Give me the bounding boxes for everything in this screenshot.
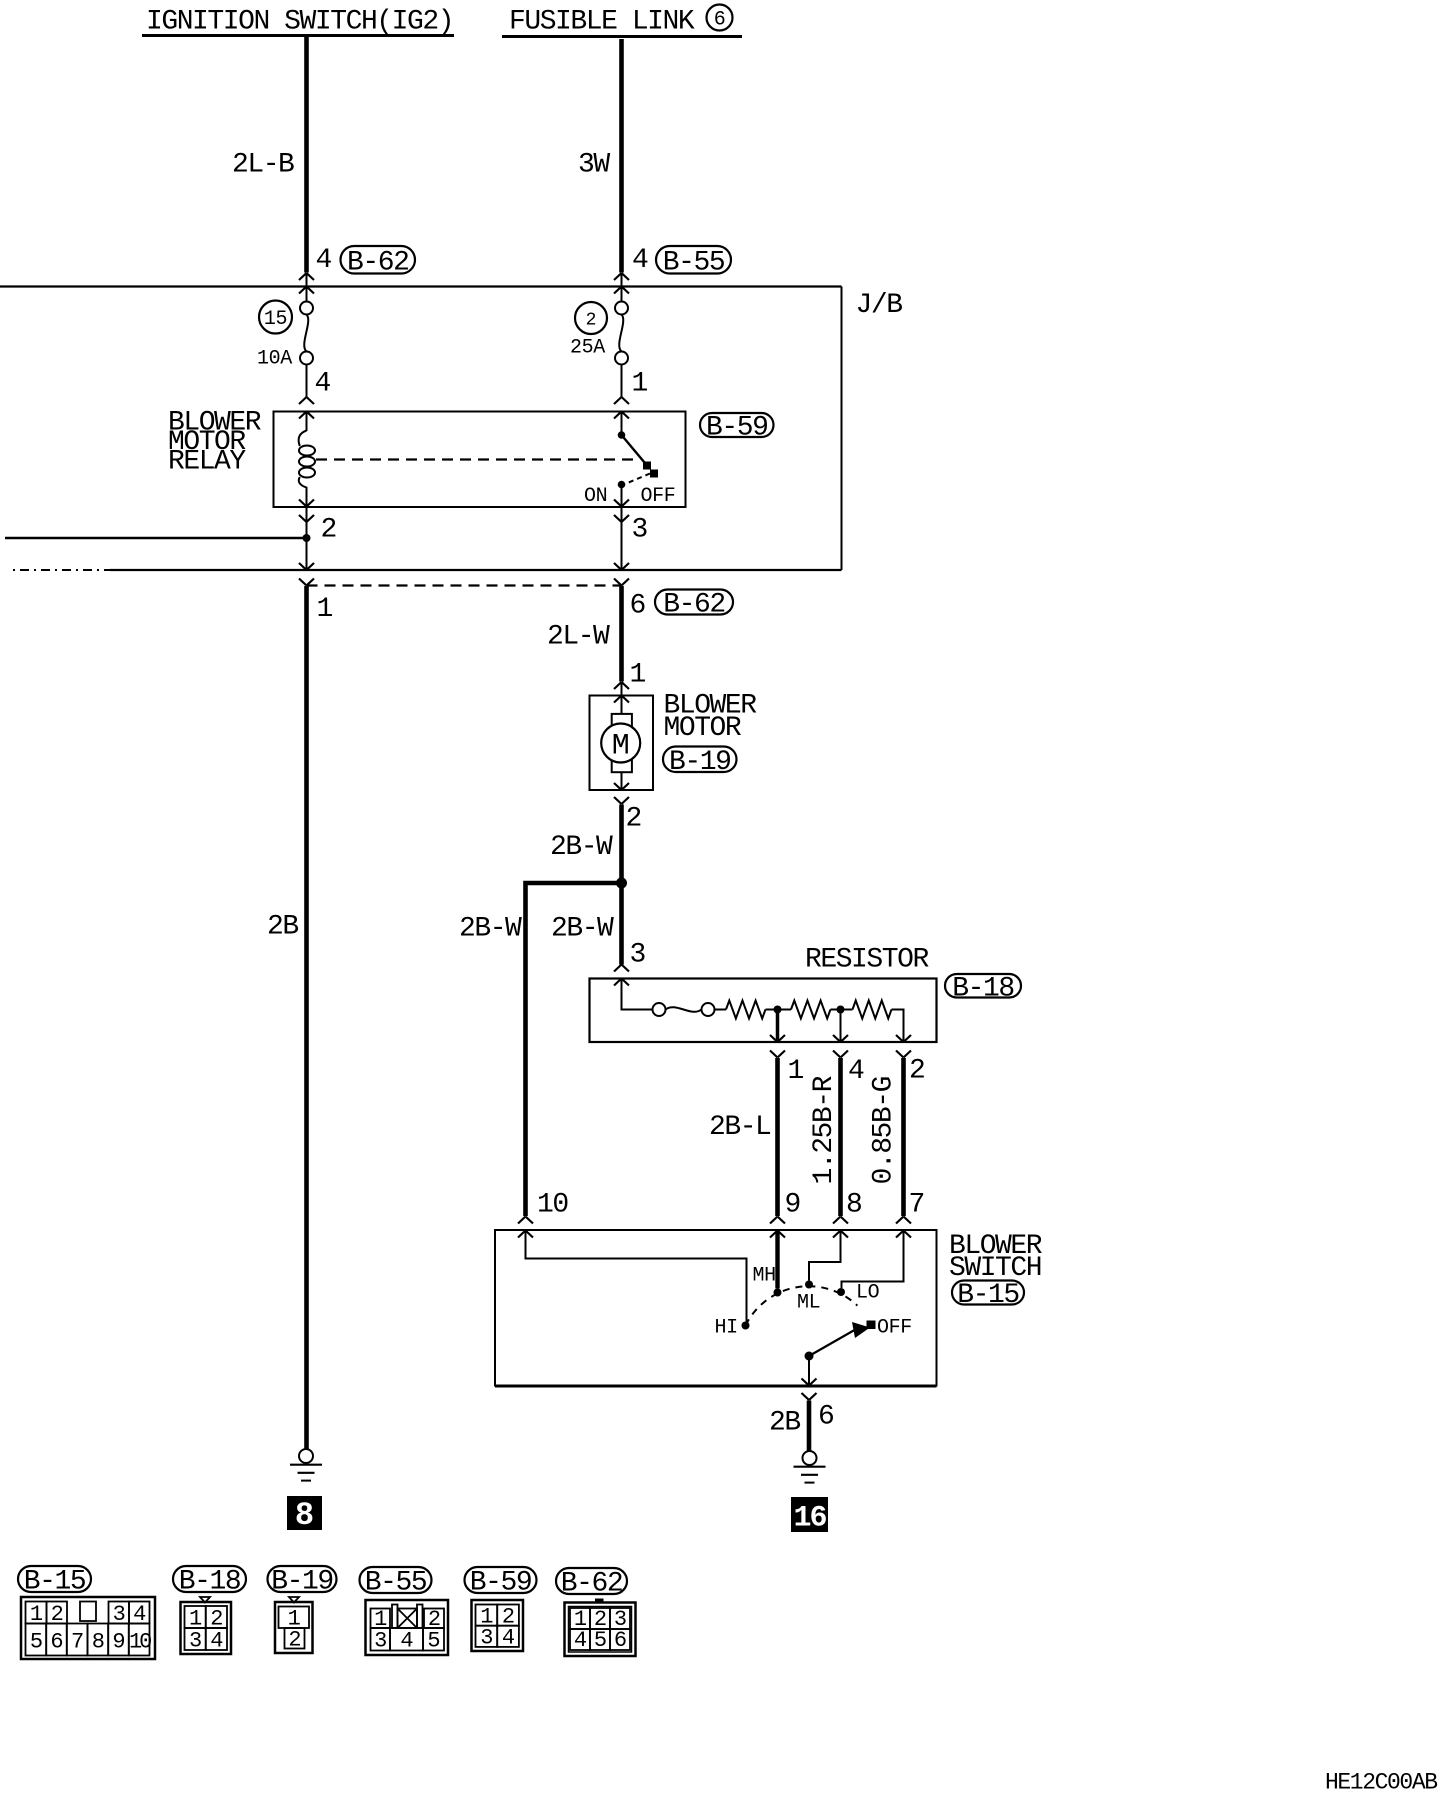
connector arrows at switch pin 8 bbox=[833, 1217, 848, 1224]
fuse 15 element top terminal bbox=[300, 302, 313, 315]
svg-text:3: 3 bbox=[480, 1626, 492, 1651]
connector B-59 pinout drawing bbox=[472, 1600, 524, 1651]
svg-text:ON: ON bbox=[584, 485, 607, 508]
wire element3 to pin 2 drop bbox=[892, 1010, 904, 1043]
wire relay ON contact to pin 3 bbox=[621, 488, 623, 570]
connector label B-62 (lower) bbox=[655, 590, 733, 615]
connector chart label B-59 bbox=[465, 1567, 537, 1593]
resistor element 1 bbox=[726, 1001, 765, 1019]
connector arrows at switch pin 7 bbox=[896, 1217, 911, 1224]
svg-text:8: 8 bbox=[295, 1497, 314, 1534]
connector B-18 pinout drawing bbox=[200, 1597, 210, 1603]
svg-text:9: 9 bbox=[112, 1630, 124, 1655]
wire stub out of motor bbox=[621, 772, 623, 790]
svg-text:1: 1 bbox=[630, 660, 646, 691]
connector label B-62 bbox=[341, 246, 416, 274]
wire into J/B (left) bbox=[306, 273, 308, 302]
svg-text:6: 6 bbox=[818, 1402, 833, 1433]
svg-text:4: 4 bbox=[502, 1626, 515, 1651]
connector B-55 pinout drawing bbox=[366, 1600, 449, 1655]
relay fixed contact (from pin 1) bbox=[621, 412, 623, 433]
svg-text:M: M bbox=[612, 729, 630, 763]
connector arrows at relay pin 1 bbox=[614, 397, 629, 404]
svg-text:HI: HI bbox=[715, 1317, 738, 1340]
wire stub into motor bbox=[621, 682, 623, 714]
svg-text:2L-W: 2L-W bbox=[547, 622, 610, 653]
svg-text:5: 5 bbox=[594, 1628, 606, 1653]
connector arrows at blower motor pin 2 bbox=[614, 783, 629, 790]
resistor internal drop to pin 4 bbox=[840, 1010, 842, 1043]
switch rotor dashed travel arc bbox=[746, 1286, 858, 1325]
connector B-15 pinout drawing bbox=[21, 1597, 155, 1659]
svg-text:B-62: B-62 bbox=[663, 590, 724, 621]
svg-text:B-19: B-19 bbox=[271, 1567, 332, 1598]
svg-text:B-62: B-62 bbox=[561, 1569, 622, 1600]
svg-text:1.25B-R: 1.25B-R bbox=[809, 1075, 840, 1184]
connector arrows at J/B exit (right wire) bbox=[614, 563, 629, 570]
blower switch box bbox=[495, 1230, 937, 1386]
svg-text:B-15: B-15 bbox=[957, 1280, 1019, 1311]
connector label B-55 bbox=[656, 246, 731, 274]
connector chart label B-62 bbox=[556, 1568, 627, 1594]
body ground symbol (right) bbox=[803, 1451, 817, 1465]
connector arrows at switch pin 9 bbox=[770, 1217, 785, 1224]
wire fuse15 to relay pin 4 bbox=[306, 365, 308, 398]
svg-text:4: 4 bbox=[210, 1629, 223, 1654]
fuse 25A element wire bbox=[619, 315, 623, 352]
body ground symbol (left) bbox=[299, 1449, 313, 1463]
svg-text:6: 6 bbox=[630, 591, 645, 622]
fuse 15 element wire bbox=[304, 315, 308, 352]
relay switch arm (off position) bbox=[622, 435, 648, 466]
thermal fuse wire bbox=[666, 1007, 702, 1012]
svg-text:5: 5 bbox=[427, 1629, 439, 1654]
switch wiper arrow head at OFF bbox=[852, 1322, 870, 1338]
svg-text:MH: MH bbox=[753, 1265, 776, 1288]
svg-text:2: 2 bbox=[321, 515, 336, 546]
svg-text:LO: LO bbox=[856, 1282, 879, 1305]
svg-text:2B-W: 2B-W bbox=[551, 914, 614, 945]
resistor element 3 bbox=[853, 1001, 892, 1019]
blower motor box bbox=[590, 696, 654, 791]
wire 0.85B-G (thick) bbox=[901, 1058, 906, 1216]
resistor element 2 bbox=[791, 1001, 830, 1019]
resistor tap node to pin 4 bbox=[837, 1006, 845, 1014]
LO contact dot bbox=[837, 1288, 845, 1296]
junction block J/B bottom edge (solid) bbox=[110, 569, 842, 571]
svg-text:4: 4 bbox=[400, 1629, 413, 1654]
svg-text:3: 3 bbox=[630, 940, 646, 971]
connector chart label B-15 bbox=[18, 1566, 91, 1592]
resistor tap node to pin 1 bbox=[774, 1006, 782, 1014]
svg-text:4: 4 bbox=[632, 245, 648, 276]
svg-text:FUSIBLE LINK: FUSIBLE LINK bbox=[509, 7, 695, 38]
svg-text:10A: 10A bbox=[257, 348, 292, 371]
svg-text:7: 7 bbox=[71, 1630, 83, 1655]
switch internal wire pin8 to ML contact bbox=[809, 1231, 841, 1281]
svg-text:2: 2 bbox=[909, 1056, 924, 1087]
connector label B-15 bbox=[952, 1281, 1024, 1305]
motor symbol circle M bbox=[601, 724, 640, 763]
svg-text:10: 10 bbox=[129, 1630, 151, 1655]
connector label B-59 bbox=[700, 413, 774, 437]
svg-text:RELAY: RELAY bbox=[168, 447, 246, 478]
connector arrows at resistor pin 2 bbox=[896, 1035, 911, 1042]
thermal fuse terminal right bbox=[702, 1003, 715, 1016]
svg-text:4: 4 bbox=[315, 369, 331, 400]
switch internal wire pin10 to HI contact bbox=[526, 1231, 747, 1322]
connector chart label B-18 bbox=[173, 1566, 246, 1592]
fuse 25A element top terminal bbox=[615, 302, 628, 315]
switch pivot dot bbox=[805, 1352, 814, 1361]
svg-text:OFF: OFF bbox=[877, 1317, 912, 1340]
svg-text:4: 4 bbox=[848, 1056, 864, 1087]
thermal fuse terminal left bbox=[653, 1003, 666, 1016]
connector arrows at blower motor pin 1 bbox=[614, 682, 629, 689]
svg-text:B-19: B-19 bbox=[669, 747, 730, 778]
connector arrows at J/B entry (left wire) bbox=[299, 273, 314, 280]
connector arrows at resistor pin 3 bbox=[614, 965, 629, 972]
wire 2L-W thick segment bbox=[619, 586, 624, 682]
wire 2L-B from ignition switch (thick) bbox=[304, 37, 309, 273]
connector label B-19 bbox=[663, 747, 737, 773]
wire 2B to body ground (thick, left) bbox=[304, 586, 309, 1449]
connector arrows at relay pin 3 bbox=[614, 500, 629, 507]
MH contact dot bbox=[774, 1289, 782, 1297]
svg-text:B-59: B-59 bbox=[706, 413, 767, 444]
wire to resistor element 1 bbox=[715, 1009, 727, 1011]
connector arrows at J/B exit (left wire) bbox=[299, 563, 314, 570]
junction block J/B bottom edge (dashed continuation) bbox=[13, 569, 110, 571]
wire 2B-W below motor (thick) bbox=[619, 805, 624, 884]
fusible link underline bbox=[502, 35, 742, 38]
junction block J/B top edge bbox=[0, 285, 842, 287]
wire into J/B (right) bbox=[621, 273, 623, 302]
svg-text:4: 4 bbox=[133, 1602, 146, 1627]
svg-text:2: 2 bbox=[626, 804, 641, 835]
connector chart label B-19 bbox=[268, 1566, 337, 1592]
dashed connector line between B-62 pins 1 and 6 bbox=[307, 584, 622, 586]
wire 2B-W to resistor (thick) bbox=[619, 883, 624, 965]
wire element1 to element2 bbox=[766, 1009, 792, 1011]
ground reference box 8 bbox=[287, 1496, 322, 1530]
blower switch box bottom emphasis bbox=[495, 1385, 937, 1388]
connector arrows at resistor pin 1 bbox=[770, 1035, 785, 1042]
connector arrows at switch pin 10 bbox=[518, 1217, 533, 1224]
connector arrows at relay pin 2 bbox=[299, 500, 314, 507]
svg-text:1: 1 bbox=[30, 1602, 43, 1627]
wire element2 to element3 bbox=[831, 1009, 853, 1011]
wire from left edge to relay pin 2 bbox=[5, 537, 307, 540]
svg-text:HE12C00AB: HE12C00AB bbox=[1325, 1770, 1437, 1794]
svg-text:2B-W: 2B-W bbox=[459, 914, 522, 945]
svg-text:5: 5 bbox=[30, 1630, 42, 1655]
svg-text:2L-B: 2L-B bbox=[232, 150, 294, 181]
svg-text:MOTOR: MOTOR bbox=[664, 713, 742, 744]
svg-text:8: 8 bbox=[846, 1190, 861, 1221]
relay coil bbox=[299, 431, 307, 447]
connector chart label B-55 bbox=[360, 1567, 432, 1593]
ignition switch underline bbox=[142, 34, 454, 37]
svg-text:4: 4 bbox=[316, 245, 332, 276]
svg-text:3: 3 bbox=[632, 515, 648, 546]
svg-text:2: 2 bbox=[288, 1628, 300, 1653]
ML contact dot bbox=[805, 1281, 813, 1289]
svg-text:16: 16 bbox=[793, 1502, 826, 1536]
svg-text:2: 2 bbox=[586, 311, 597, 331]
fuse 15 element bottom terminal bbox=[300, 352, 313, 365]
svg-text:6: 6 bbox=[614, 1628, 626, 1653]
HI contact dot bbox=[742, 1322, 750, 1330]
svg-text:B-62: B-62 bbox=[347, 247, 408, 278]
svg-text:B-15: B-15 bbox=[24, 1567, 86, 1598]
svg-text:3: 3 bbox=[113, 1602, 125, 1627]
svg-text:10: 10 bbox=[537, 1190, 568, 1221]
switch internal wire pin9 to MH contact (thick) bbox=[775, 1231, 779, 1289]
svg-text:B-18: B-18 bbox=[179, 1567, 240, 1598]
svg-text:B-18: B-18 bbox=[952, 974, 1013, 1005]
connector B-62 pinout drawing bbox=[595, 1599, 604, 1603]
fuse 2 number circle bbox=[575, 302, 607, 334]
connector arrows at J/B entry (right wire) bbox=[614, 273, 629, 280]
wire 1.25B-R (thick) bbox=[838, 1058, 843, 1216]
relay coil wire lower stub bbox=[306, 487, 308, 570]
wire into resistor network bbox=[622, 979, 653, 1010]
blower motor relay box bbox=[274, 412, 686, 508]
junction dot at relay pin 2 wire bbox=[303, 534, 311, 542]
fusible link circled 6 bbox=[707, 5, 733, 31]
svg-text:2: 2 bbox=[51, 1602, 63, 1627]
svg-text:IGNITION SWITCH(IG2): IGNITION SWITCH(IG2) bbox=[146, 7, 453, 38]
svg-text:0.85B-G: 0.85B-G bbox=[869, 1076, 900, 1184]
connector arrows at relay pin 4 bbox=[299, 397, 314, 404]
svg-text:RESISTOR: RESISTOR bbox=[805, 945, 929, 976]
connector arrows at switch pin 6 bbox=[802, 1379, 817, 1386]
switch internal wire pin7 to LO contact bbox=[842, 1231, 904, 1289]
junction block J/B right edge bbox=[841, 287, 843, 571]
svg-text:3W: 3W bbox=[578, 150, 610, 181]
svg-text:7: 7 bbox=[909, 1190, 924, 1221]
junction dot 2B-W splice bbox=[616, 878, 627, 889]
svg-text:3: 3 bbox=[189, 1629, 201, 1654]
relay actuation dashed link bbox=[316, 458, 637, 460]
resistor internal drop to pin 1 bbox=[776, 1010, 780, 1043]
switch output wire to pin 6 bbox=[808, 1356, 810, 1386]
svg-text:15: 15 bbox=[264, 308, 287, 331]
wire 2B to body ground (thick, bottom) bbox=[807, 1401, 812, 1452]
svg-text:2B: 2B bbox=[267, 912, 298, 943]
relay arm dashed travel to ON contact bbox=[625, 474, 650, 485]
svg-text:ML: ML bbox=[797, 1292, 820, 1315]
fuse 25A element bottom terminal bbox=[615, 352, 628, 365]
svg-text:J/B: J/B bbox=[856, 290, 903, 321]
svg-text:3: 3 bbox=[374, 1629, 386, 1654]
ground reference box 16 bbox=[791, 1497, 828, 1532]
svg-text:1: 1 bbox=[317, 594, 333, 625]
svg-text:6: 6 bbox=[714, 9, 726, 32]
svg-text:OFF: OFF bbox=[641, 485, 676, 508]
resistor box bbox=[590, 979, 937, 1043]
svg-text:2B-L: 2B-L bbox=[709, 1112, 771, 1143]
svg-text:6: 6 bbox=[50, 1630, 62, 1655]
fuse 15 number circle bbox=[259, 301, 292, 334]
switch wiper arm bbox=[809, 1328, 858, 1356]
svg-text:1: 1 bbox=[788, 1056, 804, 1087]
wire 3W from fusible link (thick) bbox=[619, 39, 624, 273]
relay ON contact dot bbox=[618, 481, 626, 489]
svg-text:25A: 25A bbox=[570, 337, 605, 360]
svg-text:2B: 2B bbox=[769, 1408, 800, 1439]
connector arrows at resistor pin 4 bbox=[833, 1035, 848, 1042]
svg-text:4: 4 bbox=[574, 1628, 587, 1653]
svg-text:9: 9 bbox=[785, 1190, 800, 1221]
wire 2B-L (thick) bbox=[775, 1058, 780, 1216]
motor armature rectangle bbox=[612, 714, 632, 772]
wire 2B-W branch to blower switch (thick) bbox=[526, 883, 622, 1216]
connector B-19 pinout drawing bbox=[289, 1597, 299, 1603]
relay coil wire upper stub bbox=[306, 412, 308, 432]
connector label B-18 bbox=[945, 974, 1021, 998]
svg-text:2B-W: 2B-W bbox=[550, 832, 613, 863]
svg-text:B-59: B-59 bbox=[470, 1568, 531, 1599]
wire fuse25A to relay pin 1 bbox=[621, 365, 623, 398]
svg-text:B-55: B-55 bbox=[663, 247, 725, 278]
svg-text:8: 8 bbox=[92, 1630, 104, 1655]
svg-text:1: 1 bbox=[632, 369, 648, 400]
svg-text:B-55: B-55 bbox=[365, 1568, 427, 1599]
